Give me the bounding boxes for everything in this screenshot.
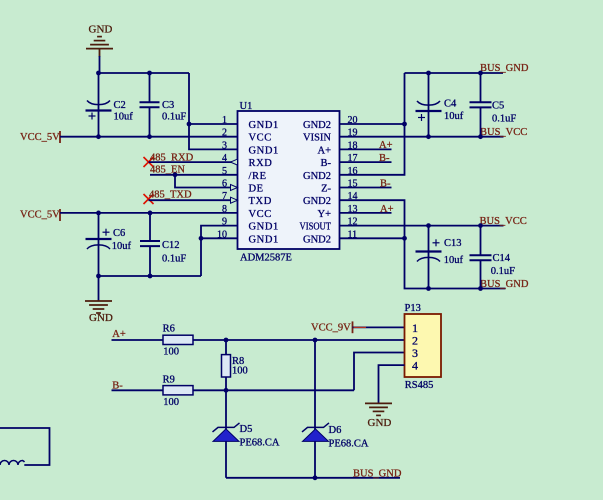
node junction C3-VCC [147, 134, 152, 139]
node junction C14 top [478, 223, 483, 228]
svg-text:VISIN: VISIN [303, 133, 331, 144]
wire U1 pin 20 [340, 123, 405, 125]
svg-text:BUS_VCC: BUS_VCC [480, 216, 527, 227]
connector P13 body [405, 314, 442, 377]
diode D6 vertical wire [314, 340, 316, 478]
svg-text:A+: A+ [379, 140, 393, 151]
svg-text:PE68.CA: PE68.CA [240, 438, 280, 449]
svg-text:BUS_GND: BUS_GND [480, 63, 529, 74]
svg-text:100: 100 [232, 366, 248, 377]
svg-text:D5: D5 [240, 424, 253, 435]
node junction C4 bottom [426, 134, 431, 139]
capacitor C4 leads [428, 73, 430, 111]
wire GND vertical to pin3 [189, 73, 238, 149]
node junction C13 top [426, 223, 431, 228]
wire A+ line R6 to P13 pin 2 [193, 339, 405, 341]
diode D5 (TVS) [213, 423, 240, 432]
svg-text:C13: C13 [444, 238, 462, 249]
svg-text:5: 5 [222, 166, 227, 177]
capacitor C5 leads [480, 73, 482, 102]
svg-text:BUS_GND: BUS_GND [353, 468, 402, 479]
wire U1 pin 10 [201, 237, 238, 239]
resistor R9 [163, 386, 193, 395]
wire VCC_9V to P13 pin 1 [353, 326, 405, 328]
node junction C5 top [478, 71, 483, 76]
wire U1 pin 5 (/RE) [150, 174, 238, 176]
node junction D6 bottom [313, 475, 318, 480]
svg-text:BUS_GND: BUS_GND [480, 279, 529, 290]
pin 6 input arrow [231, 185, 238, 191]
resistor R8 leads [225, 340, 227, 355]
transformer fragment (bottom-left) [0, 428, 50, 465]
svg-text:10uf: 10uf [444, 255, 464, 266]
svg-text:C14: C14 [493, 253, 511, 264]
svg-text:ADM2587E: ADM2587E [240, 253, 292, 264]
node junction C12-GND [148, 274, 153, 279]
diode D6 (TVS) [302, 423, 329, 432]
svg-text:3: 3 [222, 140, 227, 151]
power port VCC_5V upper (bar) [59, 131, 61, 143]
svg-text:GND2: GND2 [303, 120, 331, 131]
node junction C3-GND [147, 71, 152, 76]
svg-text:RS485: RS485 [405, 380, 434, 391]
power port VCC_9V (bar) [352, 321, 354, 333]
svg-text:GND: GND [89, 312, 113, 324]
svg-text:10: 10 [217, 229, 227, 240]
wire B- line R9 to pin3 riser [193, 389, 354, 391]
svg-text:GND: GND [89, 24, 113, 36]
capacitor C14 symbol [470, 254, 492, 256]
capacitor C2 symbol [87, 101, 110, 105]
svg-text:RXD: RXD [249, 158, 273, 169]
svg-text:P13: P13 [405, 303, 421, 314]
pin 7 input arrow [231, 197, 238, 203]
node junction C2-GND [96, 71, 101, 76]
svg-text:C4: C4 [444, 99, 457, 110]
wire EN jog to pin 6 (DE) [175, 175, 238, 188]
capacitor C12 symbol [140, 240, 160, 242]
wire GND rail lower-left [99, 275, 202, 277]
wire GND lead (top) [99, 49, 101, 57]
resistor R8 [222, 355, 231, 377]
power port GND (top earth symbol) [86, 48, 113, 50]
resistor R6 [163, 335, 193, 344]
capacitor C6 symbol [86, 238, 112, 240]
wire stub pin 15 [340, 187, 392, 189]
svg-text:100: 100 [163, 397, 179, 408]
node junction R8 bottom [224, 388, 229, 393]
power port GND (left earth symbol) [85, 300, 112, 302]
svg-text:1: 1 [222, 115, 227, 126]
svg-text:R6: R6 [163, 324, 175, 335]
wire riser to P13 pin 3 [354, 353, 405, 391]
svg-text:C3: C3 [162, 100, 174, 111]
capacitor C6 leads [98, 213, 100, 239]
node junction C6-GND [96, 274, 101, 279]
svg-text:2: 2 [222, 128, 227, 139]
svg-text:DE: DE [249, 184, 264, 195]
svg-text:/RE: /RE [249, 171, 267, 182]
node junction pin20 tap [402, 122, 407, 127]
svg-text:A+: A+ [380, 204, 394, 215]
svg-text:VCC: VCC [249, 209, 272, 220]
svg-text:485_TXD: 485_TXD [149, 189, 192, 200]
pin 4 output arrow [231, 159, 238, 165]
node junction pin10 tap [199, 236, 204, 241]
wire stub pin 18 [340, 148, 392, 150]
svg-text:10uf: 10uf [444, 111, 464, 122]
power port VCC_5V lower (bar) [59, 209, 61, 221]
capacitor C12 leads [149, 213, 151, 241]
svg-text:TXD: TXD [249, 196, 272, 207]
svg-text:4: 4 [222, 153, 227, 164]
node junction D6 top [313, 338, 318, 343]
wire BUS_VCC rail lower (pin 12) [340, 225, 504, 227]
wire B- to R9 [112, 389, 164, 391]
svg-text:100: 100 [163, 347, 179, 358]
capacitor C4 symbol [417, 101, 440, 105]
capacitor C5 symbol [470, 101, 492, 103]
svg-text:C12: C12 [162, 240, 180, 251]
svg-text:VCC_5V: VCC_5V [20, 210, 60, 221]
svg-text:10uf: 10uf [114, 112, 134, 123]
svg-text:C5: C5 [492, 101, 504, 112]
svg-text:GND: GND [368, 417, 392, 429]
svg-text:0.1uF: 0.1uF [492, 114, 516, 125]
svg-text:VCC: VCC [249, 133, 272, 144]
wire P13 pin 4 to GND [379, 365, 405, 403]
svg-text:VCC_5V: VCC_5V [20, 132, 60, 143]
svg-text:D6: D6 [329, 425, 342, 436]
svg-text:PE68.CA: PE68.CA [329, 438, 369, 449]
svg-text:6: 6 [222, 179, 227, 190]
node junction C14 bottom [478, 286, 483, 291]
svg-text:U1: U1 [240, 101, 253, 112]
svg-text:4: 4 [412, 359, 418, 373]
transformer coil bumps [0, 461, 24, 466]
svg-text:Y+: Y+ [317, 209, 331, 220]
svg-text:0.1uF: 0.1uF [491, 266, 515, 277]
node junction R8 top [224, 338, 229, 343]
svg-text:GND2: GND2 [303, 171, 331, 182]
wire stub pin 13 [340, 212, 392, 214]
wire A+ to R6 [112, 339, 164, 341]
svg-text:B-: B- [380, 179, 391, 190]
svg-text:GND1: GND1 [249, 234, 279, 245]
wire GND rail top-left [99, 72, 190, 74]
svg-text:B-: B- [379, 153, 390, 164]
svg-text:R9: R9 [163, 375, 175, 386]
svg-text:VISOUT: VISOUT [300, 222, 332, 233]
svg-text:A+: A+ [112, 329, 126, 340]
svg-text:10uf: 10uf [112, 241, 132, 252]
wire U1 pin 11 [340, 237, 405, 239]
wire stub pin 17 [340, 161, 392, 163]
node junction C2-VCC [96, 134, 101, 139]
svg-text:VCC_9V: VCC_9V [311, 323, 351, 334]
node junction pin11 tap [402, 236, 407, 241]
svg-text:7: 7 [222, 191, 227, 202]
capacitor C13 leads [428, 226, 430, 252]
svg-text:8: 8 [222, 204, 227, 215]
wire U1 pin 9 with vertical [201, 226, 238, 276]
svg-text:A+: A+ [317, 145, 331, 156]
node junction C4 top [426, 71, 431, 76]
capacitor C3 leads [149, 73, 151, 102]
node junction pin1 tap [187, 122, 192, 127]
svg-text:Z-: Z- [321, 184, 331, 195]
wire VCC_5V rail to U1 pin 8 [60, 212, 238, 214]
svg-text:BUS_VCC: BUS_VCC [480, 127, 527, 138]
svg-text:C2: C2 [114, 100, 126, 111]
svg-text:0.1uF: 0.1uF [162, 112, 186, 123]
svg-text:GND2: GND2 [303, 234, 331, 245]
red no-ERC cross on 485_RXD [144, 157, 154, 167]
svg-text:C6: C6 [113, 228, 125, 239]
svg-text:GND1: GND1 [249, 222, 279, 233]
wire U1 pin 4 (RXD) [149, 161, 238, 163]
svg-text:0.1uF: 0.1uF [162, 254, 186, 265]
svg-text:GND2: GND2 [303, 196, 331, 207]
node junction EN branch [173, 172, 178, 177]
wire pin 14 to lower BUS_GND rail [340, 200, 506, 288]
wire BUS_GND rail top [405, 72, 504, 74]
wire BUS_VCC rail (pin 19) [340, 136, 504, 138]
svg-text:B-: B- [321, 158, 332, 169]
wire BUS_GND rail bottom [226, 477, 400, 479]
svg-text:9: 9 [222, 217, 227, 228]
svg-text:GND1: GND1 [249, 145, 279, 156]
wire U1 pin 1 [189, 123, 238, 125]
wire VCC_5V rail to U1 pin 2 [60, 136, 238, 138]
node junction C12-VCC [148, 211, 153, 216]
diode D5 vertical wire [225, 390, 227, 478]
red no-ERC cross on 485_TXD [144, 194, 154, 204]
capacitor C3 symbol [140, 101, 160, 103]
node junction C6-VCC [96, 211, 101, 216]
power port GND (P13 earth symbol) [365, 402, 392, 404]
node junction C13 bottom [426, 286, 431, 291]
capacitor C2 leads [98, 73, 100, 111]
capacitor C14 leads [480, 226, 482, 256]
node junction C5 bottom [478, 134, 483, 139]
wire U1 pin 7 (TXD) [149, 199, 238, 201]
svg-text:GND1: GND1 [249, 120, 279, 131]
capacitor C13 symbol [416, 250, 442, 252]
op-amp U1 ADM2587E body [238, 111, 340, 249]
wire BUS_GND vertical to pin 16 [340, 73, 405, 175]
